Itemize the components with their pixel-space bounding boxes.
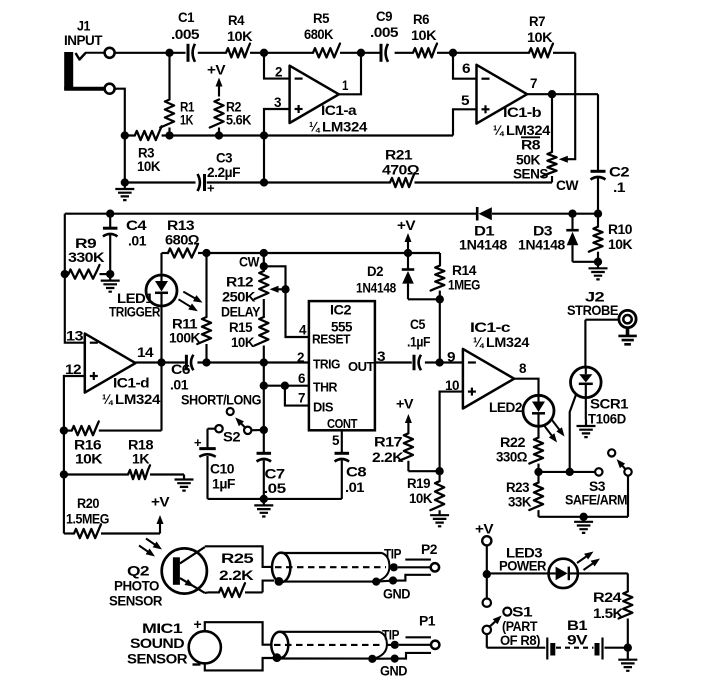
resistor R5 680K (feedback IC1-a): [304, 11, 340, 57]
svg-text:R7: R7: [529, 14, 546, 30]
svg-text:10K: 10K: [409, 491, 433, 507]
resistor R25 2.2K: [205, 551, 263, 597]
svg-text:DIS: DIS: [313, 400, 334, 415]
junction dot R22/R23/gate: [534, 468, 542, 476]
svg-text:PHOTO: PHOTO: [114, 579, 159, 595]
svg-text:1.5MEG: 1.5MEG: [66, 512, 109, 528]
potentiometer R8 50K SENS: [513, 94, 579, 194]
resistor R22 330ohm: [496, 435, 543, 472]
svg-text:.01: .01: [170, 378, 189, 394]
wire left vertical to IC1-d pin13: [65, 214, 85, 343]
cable TIP terminal P1: [382, 614, 439, 650]
svg-text:6: 6: [298, 371, 306, 387]
junction dot gate: [566, 468, 574, 476]
svg-text:+V: +V: [397, 218, 416, 234]
wire signal line pin14-C6-TRIG: [162, 361, 309, 363]
svg-text:IC1-b: IC1-b: [503, 105, 542, 121]
svg-text:9V: 9V: [567, 633, 588, 649]
svg-text:C9: C9: [376, 9, 393, 25]
junction dot R14/D2 bottom: [436, 295, 444, 303]
svg-text:¼: ¼: [102, 392, 113, 408]
junction dots on rail: [121, 131, 269, 139]
svg-text:5: 5: [461, 93, 470, 109]
svg-text:5.6K: 5.6K: [226, 113, 252, 129]
SCR1 T106D: [571, 367, 629, 428]
connector J2 STROBE: [567, 290, 636, 368]
svg-text:680Ω: 680Ω: [165, 233, 199, 249]
svg-text:1K: 1K: [180, 113, 194, 129]
ground under C7: [254, 499, 273, 517]
junction dot battery/R24: [624, 644, 632, 652]
svg-text:R5: R5: [313, 11, 330, 27]
svg-text:TRIG: TRIG: [313, 357, 340, 372]
svg-text:.005: .005: [171, 27, 200, 43]
microphone MIC1 SOUND SENSOR: [127, 616, 273, 671]
svg-text:7: 7: [298, 391, 306, 407]
svg-text:IC2: IC2: [330, 303, 352, 319]
svg-text:1K: 1K: [132, 452, 150, 468]
svg-text:10K: 10K: [75, 452, 103, 468]
svg-text:DELAY: DELAY: [221, 305, 261, 321]
wire +V distribution (y=253): [207, 253, 441, 266]
junction dots signal line left: [157, 358, 268, 366]
diode D3 1N4148: [518, 214, 598, 262]
power +V arrow at R17: [396, 397, 414, 434]
capacitor C9 .005: [370, 9, 399, 62]
svg-text:1N4148: 1N4148: [356, 281, 396, 297]
wire R12 wiper to pin4: [264, 266, 309, 337]
svg-text:10K: 10K: [411, 28, 437, 44]
svg-text:P2: P2: [421, 542, 438, 558]
svg-text:13: 13: [66, 329, 84, 345]
junction dot jack ground node: [121, 178, 129, 186]
wire pin7 down through C2: [597, 94, 599, 214]
wire THR pin6: [264, 363, 309, 386]
wire IC1-b pin6: [453, 53, 477, 79]
junction dot S2 node: [260, 426, 268, 434]
resistor R18 1K: [64, 431, 184, 480]
wire C3-R21 line (y=182.5): [125, 181, 552, 183]
svg-text:OUT: OUT: [348, 359, 375, 374]
switch S2 SHORT/LONG: [181, 393, 261, 449]
op-amp IC1-a 1/4 LM324: [290, 66, 368, 136]
wire DIS pin7 link: [285, 386, 309, 406]
wire top signal line: [115, 52, 575, 54]
wire IC1-d output pin14: [136, 361, 162, 364]
svg-text:R17: R17: [374, 435, 403, 451]
connector J1 INPUT phone jack: [64, 19, 115, 94]
svg-text:10K: 10K: [608, 237, 633, 253]
svg-text:2.2K: 2.2K: [219, 568, 255, 584]
svg-text:.05: .05: [264, 481, 287, 497]
svg-text:R19: R19: [407, 476, 431, 492]
svg-text:IC1-c: IC1-c: [470, 320, 511, 336]
svg-text:IC1-d: IC1-d: [113, 376, 149, 392]
capacitor C5 .1uF: [407, 317, 431, 370]
wire THR down to S2/C7: [263, 386, 265, 430]
resistor R11 100K: [169, 253, 211, 363]
svg-text:SHORT/LONG: SHORT/LONG: [181, 393, 261, 409]
resistor R23 33K: [506, 472, 543, 517]
svg-text:THR: THR: [313, 380, 338, 395]
IC2 555 timer box: [309, 301, 375, 431]
svg-text:33K: 33K: [508, 495, 532, 511]
junction dot C3 line: [260, 178, 268, 186]
junction dot pin9 node: [435, 358, 443, 366]
junction dots long wire: [106, 210, 602, 218]
LED2: [489, 395, 565, 442]
svg-text:+V: +V: [396, 397, 414, 413]
junction dot R16 left: [60, 426, 68, 434]
svg-text:4: 4: [299, 323, 307, 339]
ground under jack: [115, 183, 134, 201]
ground under C4: [101, 274, 120, 292]
svg-text:CW: CW: [239, 255, 260, 271]
wire SCR1 gate: [570, 393, 577, 472]
resistor R3 10K: [135, 126, 162, 175]
resistor R14 1MEG: [431, 263, 481, 299]
svg-text:C1: C1: [178, 10, 195, 26]
junction dots on top wire: [165, 49, 457, 57]
svg-text:14: 14: [137, 345, 154, 361]
svg-text:MIC1: MIC1: [142, 621, 183, 637]
svg-text:¼: ¼: [493, 123, 504, 139]
svg-text:C10: C10: [210, 462, 235, 478]
svg-text:1.5K: 1.5K: [593, 606, 624, 622]
wire R22/R23 node to S3: [539, 471, 596, 473]
svg-text:8: 8: [519, 361, 527, 377]
ground under J2: [626, 328, 630, 336]
junction dot DIS branch: [281, 382, 289, 390]
junction dot R17/R19/pin10: [435, 467, 443, 475]
svg-text:6: 6: [462, 61, 471, 77]
svg-text:GND: GND: [383, 587, 410, 603]
LED1 TRIGGER: [109, 253, 203, 363]
svg-text:.005: .005: [370, 25, 399, 41]
svg-text:POWER: POWER: [499, 559, 546, 575]
svg-text:LM324: LM324: [115, 392, 160, 408]
svg-text:SOUND: SOUND: [130, 636, 184, 652]
junction dot R12 top branch: [260, 262, 268, 270]
resistor R9 330K: [65, 236, 110, 279]
svg-text:1N4148: 1N4148: [459, 238, 507, 254]
svg-text:C2: C2: [609, 165, 630, 181]
svg-text:+V: +V: [151, 495, 170, 511]
resistor R10 10K: [589, 214, 633, 262]
svg-text:5: 5: [332, 433, 340, 449]
svg-text:LED2: LED2: [489, 400, 523, 416]
wire OUT pin3 to C5 to pin9: [375, 361, 463, 363]
svg-text:330K: 330K: [68, 250, 105, 266]
svg-text:C8: C8: [346, 465, 367, 481]
svg-text:IC1-a: IC1-a: [321, 103, 357, 119]
svg-text:D2: D2: [367, 264, 384, 280]
wire IC1-a pin2: [264, 53, 290, 79]
svg-text:10K: 10K: [137, 159, 161, 175]
wire IC1-b output pin7: [527, 93, 598, 95]
junction dot S3 ground line: [579, 513, 587, 521]
capacitor C3 2.2uF: [198, 151, 241, 196]
R8 wiper arrowhead: [559, 156, 568, 163]
switch S1 (PART OF R8): [483, 599, 541, 650]
svg-text:S2: S2: [223, 430, 241, 446]
resistor R15 10K: [229, 317, 268, 363]
resistor R13 680ohm: [162, 218, 207, 258]
junction dot THR: [260, 382, 268, 390]
switch S3 SAFE/ARM: [565, 449, 632, 517]
resistor R17 2.2K: [372, 433, 440, 471]
op-amp IC1-c 1/4 LM324: [463, 320, 530, 409]
junction dot R18 left: [60, 470, 68, 478]
svg-text:1: 1: [342, 78, 348, 94]
resistor R16 10K (feedback IC1-d): [64, 363, 162, 468]
svg-text:R20: R20: [77, 496, 100, 512]
transistor Q2 PHOTO SENSOR: [109, 539, 207, 610]
ground at R18 right: [175, 475, 194, 491]
svg-text:¼: ¼: [473, 335, 484, 351]
svg-text:SCR1: SCR1: [590, 397, 629, 413]
svg-text:+: +: [194, 616, 202, 632]
svg-text:10K: 10K: [527, 30, 553, 46]
svg-text:C5: C5: [410, 317, 426, 333]
resistor R4 10K: [226, 13, 253, 57]
svg-text:1µF: 1µF: [212, 477, 236, 493]
svg-text:TIP: TIP: [384, 547, 401, 563]
svg-text:.01: .01: [128, 234, 147, 250]
resistor R1 1K: [160, 53, 194, 136]
wire IC1-a pin3: [264, 109, 290, 136]
op-amp IC1-b 1/4 LM324: [477, 65, 551, 139]
wire jack sleeve to ground: [115, 89, 125, 183]
potentiometer R12 250K DELAY: [221, 253, 268, 321]
svg-text:GND: GND: [380, 664, 407, 680]
svg-text:CONT: CONT: [327, 416, 357, 431]
resistor R6 10K: [411, 12, 437, 57]
svg-text:.1µF: .1µF: [407, 335, 431, 351]
wire link rail to C3 line: [263, 136, 265, 183]
svg-text:¼: ¼: [309, 120, 320, 136]
svg-text:LM324: LM324: [486, 335, 529, 351]
junction dot wiper: [281, 285, 289, 293]
svg-text:250K: 250K: [222, 290, 256, 306]
wire long horizontal line (y=213.7): [65, 213, 598, 215]
svg-text:R15: R15: [229, 320, 253, 336]
svg-text:.1: .1: [613, 180, 626, 196]
svg-text:OF R8): OF R8): [500, 633, 541, 649]
svg-text:Q2: Q2: [127, 564, 150, 580]
svg-text:R25: R25: [221, 551, 254, 567]
svg-text:1N4148: 1N4148: [518, 238, 565, 254]
svg-text:10K: 10K: [227, 29, 253, 45]
capacitor C8 .01 on CONT pin5: [335, 430, 367, 499]
resistor R19 10K: [407, 471, 444, 510]
power +V arrow at R20: [151, 495, 170, 534]
svg-text:CW: CW: [556, 178, 579, 194]
ground under SCR1: [577, 420, 596, 438]
svg-text:1MEG: 1MEG: [448, 278, 480, 294]
svg-text:STROBE: STROBE: [567, 303, 618, 319]
svg-text:9: 9: [447, 350, 456, 366]
diode D1 1N4148: [459, 207, 507, 254]
wire IC1-c output pin8: [514, 379, 538, 396]
svg-text:R8: R8: [521, 138, 541, 154]
capacitor C6 .01: [170, 355, 193, 394]
resistor R7 10K (feedback IC1-b): [527, 14, 553, 57]
svg-text:R10: R10: [608, 222, 633, 238]
op-amp IC1-d 1/4 LM324: [85, 334, 161, 408]
junction dot pin7: [548, 90, 556, 98]
wire S3 bottom ground line: [539, 516, 629, 518]
R12 wiper arrow: [277, 288, 286, 290]
svg-text:.01: .01: [345, 480, 365, 496]
resistor R21 470ohm: [382, 148, 419, 188]
svg-text:R4: R4: [228, 13, 245, 29]
svg-text:C4: C4: [126, 218, 147, 234]
power +V arrow at R2: [207, 63, 226, 97]
power +V terminal: [475, 522, 494, 546]
cable TIP terminal P2: [384, 542, 439, 572]
diode D2 1N4148: [356, 253, 440, 299]
svg-text:10K: 10K: [231, 335, 255, 351]
wire + input rail (y=135.5): [125, 109, 477, 135]
cable GND terminal P1: [368, 653, 431, 680]
wire +V terminal to S1: [486, 545, 488, 598]
svg-text:R6: R6: [413, 12, 430, 28]
wire IC1-d pin12: [64, 376, 85, 431]
capacitor C7 .05: [257, 430, 287, 499]
svg-text:TRIGGER: TRIGGER: [109, 305, 160, 321]
resistor R20 1.5MEG: [64, 475, 160, 539]
svg-text:P1: P1: [419, 614, 436, 630]
LED3 POWER: [487, 546, 628, 589]
svg-text:330Ω: 330Ω: [496, 450, 527, 466]
wire timing ground line (y=498.9): [208, 498, 342, 500]
wire R14 node down to pin9 line: [439, 299, 441, 362]
svg-text:RESET: RESET: [312, 332, 351, 347]
junction dot LED3 branch: [483, 570, 491, 578]
ground at battery: [618, 648, 637, 671]
wire R7 to R8 wiper: [567, 53, 575, 159]
capacitor C1 .005: [171, 10, 200, 62]
shielded cable to P2: [205, 546, 390, 592]
ground under R10: [589, 262, 608, 280]
resistor R24 1.5K: [593, 573, 632, 647]
junction dot timing ground: [260, 495, 268, 503]
svg-text:R12: R12: [226, 275, 254, 291]
svg-text:+V: +V: [475, 522, 494, 538]
svg-text:2.2K: 2.2K: [372, 450, 404, 466]
wire IC1-a output pin1: [339, 53, 361, 95]
svg-text:INPUT: INPUT: [64, 33, 103, 49]
svg-text:R24: R24: [593, 590, 622, 606]
svg-text:SENSOR: SENSOR: [109, 594, 162, 610]
svg-text:7: 7: [530, 76, 538, 92]
svg-text:R21: R21: [385, 148, 413, 164]
junction dot R10/D3 bottom: [594, 258, 602, 266]
capacitor C4 .01: [103, 214, 147, 274]
battery B1 9V: [487, 618, 628, 660]
svg-text:SENS: SENS: [513, 167, 548, 183]
svg-text:2: 2: [297, 350, 305, 366]
capacitor C10 1uF: [194, 435, 236, 499]
cable GND terminal P2: [372, 575, 431, 603]
ground under S3 line: [574, 517, 593, 533]
svg-text:+V: +V: [207, 63, 226, 79]
svg-text:SENSOR: SENSOR: [127, 652, 187, 668]
capacitor C2 .1: [591, 165, 630, 197]
wire IC1-c pin10: [440, 392, 463, 472]
svg-text:LM324: LM324: [322, 120, 367, 136]
shielded cable to P1: [271, 632, 387, 662]
svg-text:680K: 680K: [304, 27, 334, 43]
resistor R2 5.6K: [210, 100, 252, 136]
power +V arrow at D2 node: [397, 218, 416, 251]
svg-text:2.2µF: 2.2µF: [207, 165, 241, 181]
ground under R19: [430, 510, 449, 526]
junction dots R9: [61, 270, 115, 278]
svg-text:SAFE/ARM: SAFE/ARM: [565, 493, 627, 509]
junction dots +V wire: [202, 249, 412, 257]
